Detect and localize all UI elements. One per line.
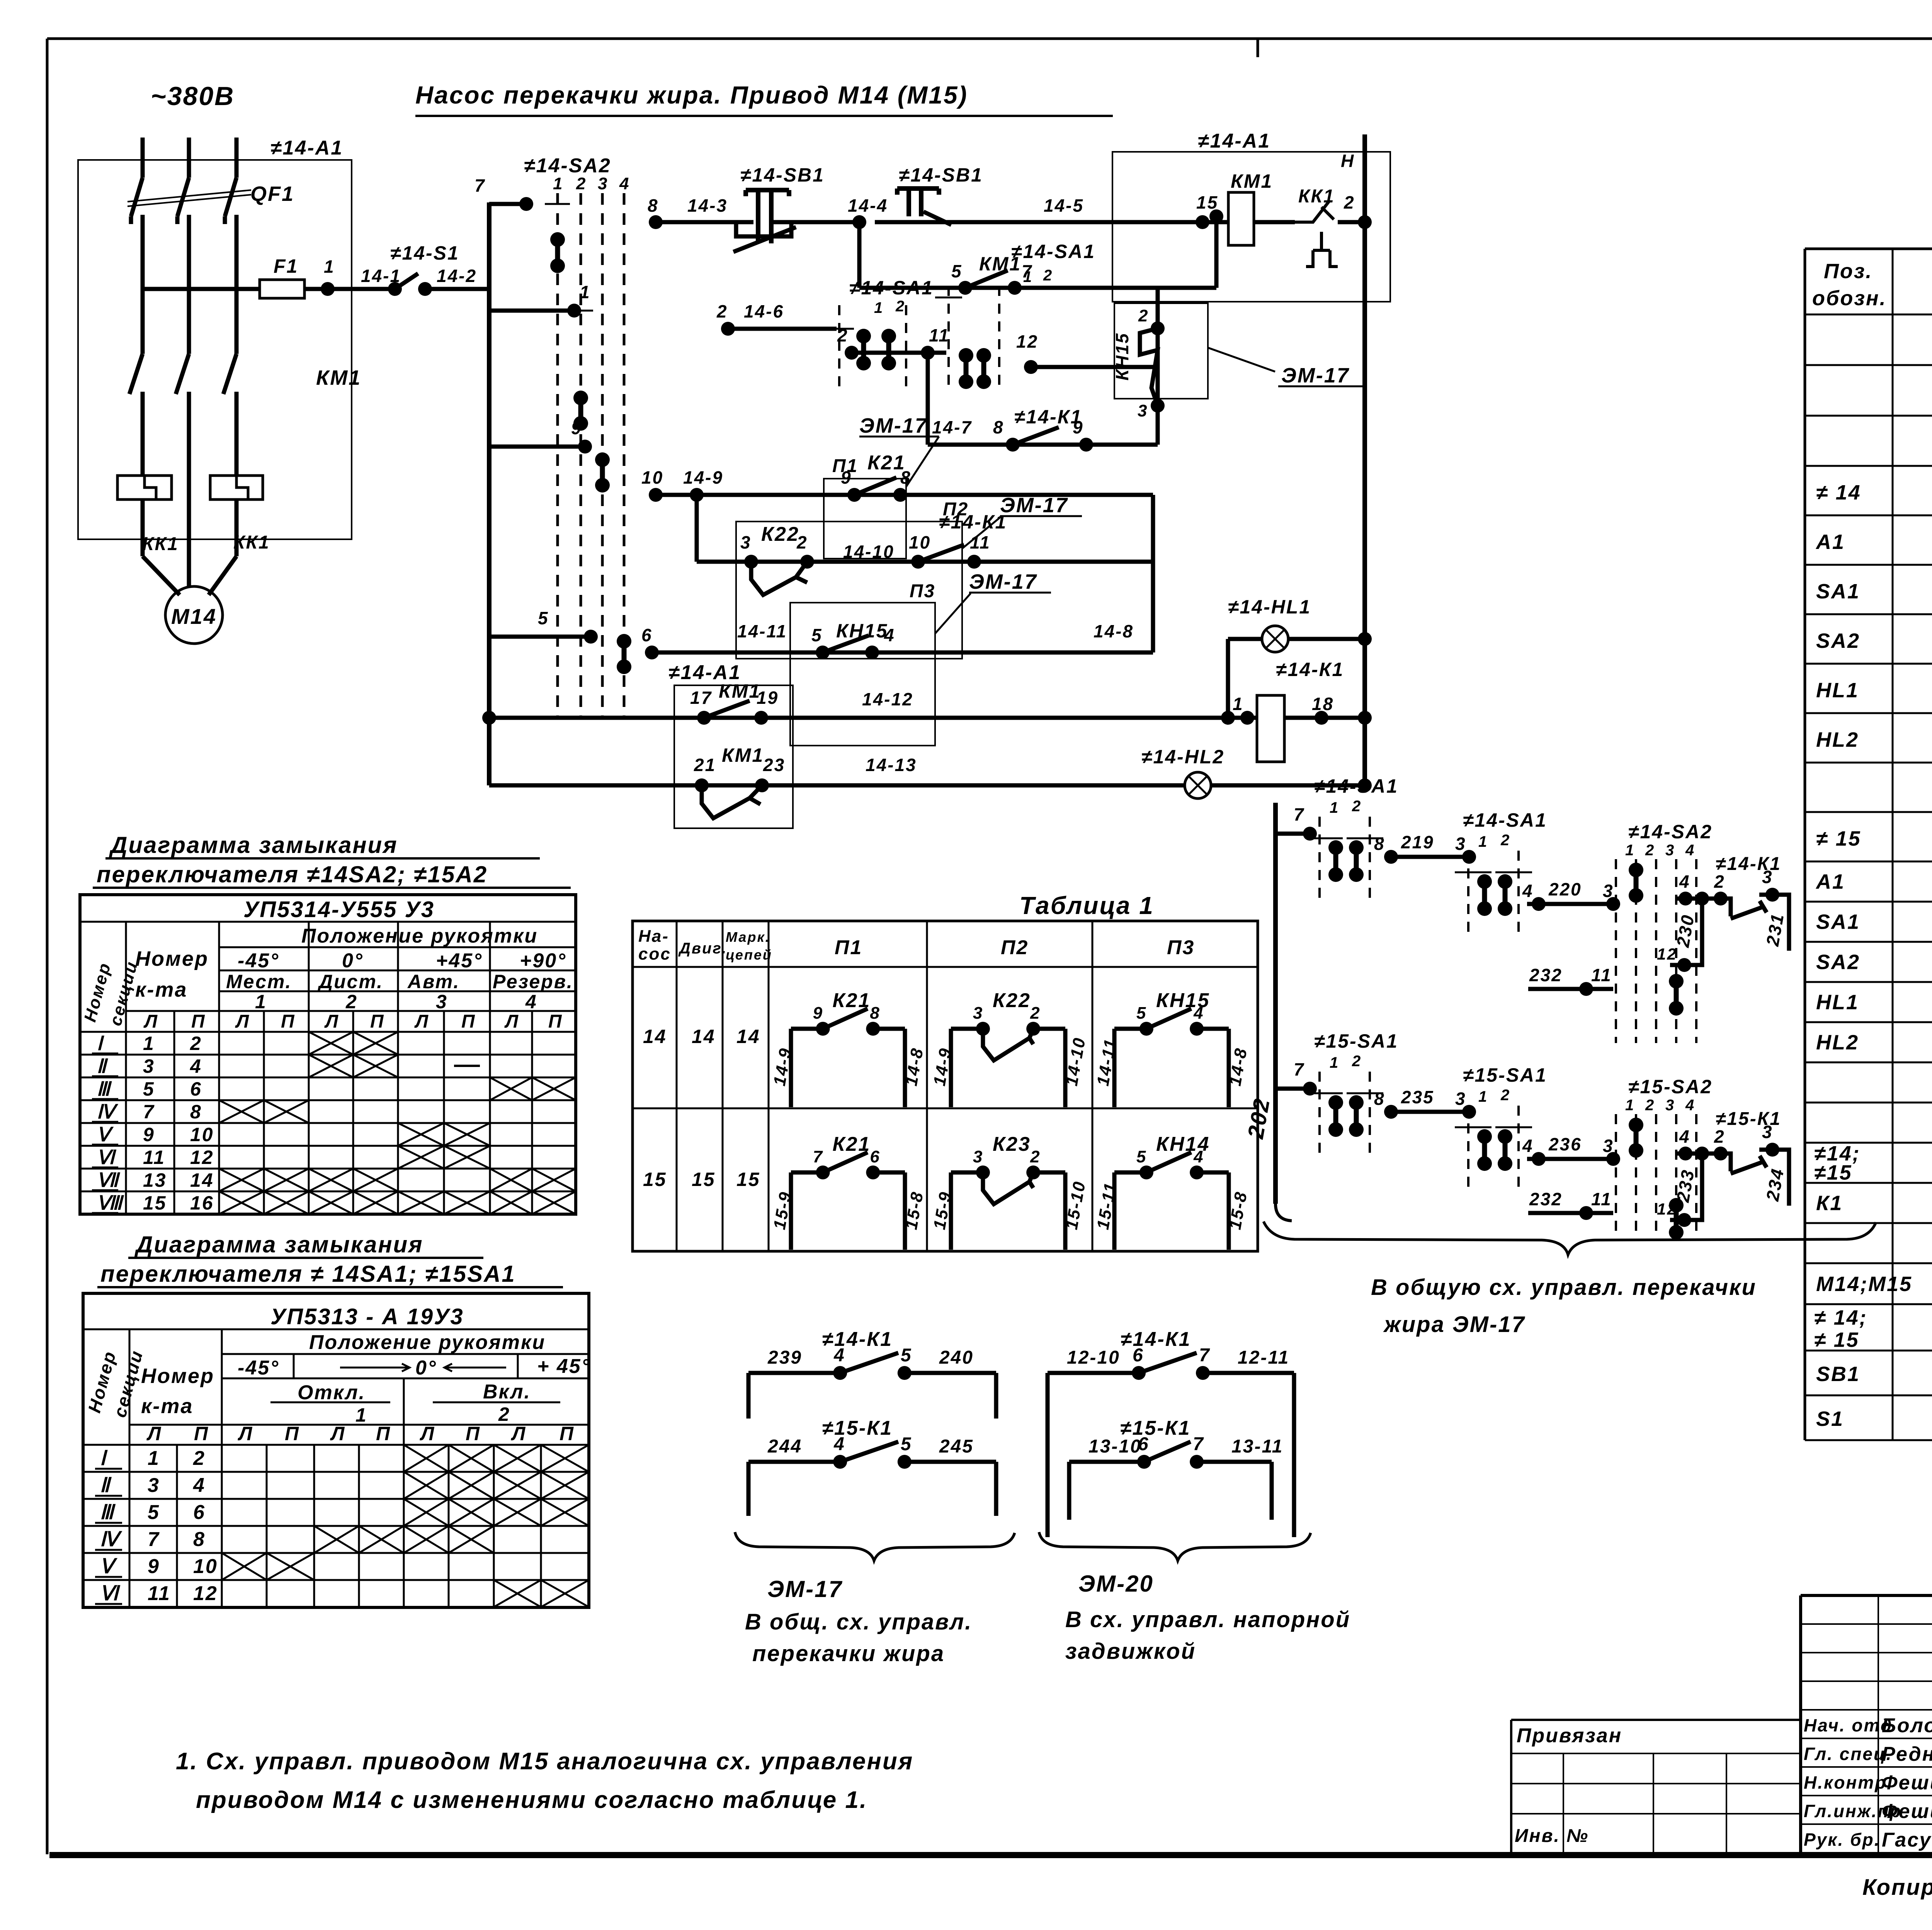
svg-text:3: 3 xyxy=(1455,834,1466,854)
svg-text:2: 2 xyxy=(1352,1053,1362,1070)
svg-text:12-10: 12-10 xyxy=(1067,1347,1120,1368)
svg-text:1: 1 xyxy=(1023,268,1033,285)
svg-text:8: 8 xyxy=(648,195,659,216)
svg-text:≠15-SA1: ≠15-SA1 xyxy=(1314,1030,1398,1052)
svg-text:Ⅰ: Ⅰ xyxy=(100,1447,108,1470)
svg-text:А1: А1 xyxy=(1815,530,1845,554)
svg-text:3: 3 xyxy=(1665,842,1675,859)
svg-text:Инв. №: Инв. № xyxy=(1515,1826,1589,1846)
svg-text:SА1: SА1 xyxy=(1816,911,1860,934)
svg-text:14-2: 14-2 xyxy=(437,266,477,286)
svg-text:перекачки жира: перекачки жира xyxy=(752,1641,945,1666)
svg-text:ЭМ-20: ЭМ-20 xyxy=(1078,1571,1154,1597)
svg-text:14-7: 14-7 xyxy=(932,417,972,437)
svg-text:8: 8 xyxy=(190,1101,202,1123)
svg-text:В общ. сх. управл.: В общ. сх. управл. xyxy=(745,1609,972,1634)
svg-text:Л: Л xyxy=(504,1011,519,1032)
svg-text:Фешин: Фешин xyxy=(1882,1772,1932,1794)
svg-text:1: 1 xyxy=(355,1404,367,1426)
svg-text:обозн.: обозн. xyxy=(1812,287,1887,310)
svg-text:10: 10 xyxy=(193,1555,218,1578)
svg-text:НL2: НL2 xyxy=(1816,728,1859,751)
svg-text:1. Cх. управл. приводом М15: 1. Cх. управл. приводом М15 аналогична с… xyxy=(176,1748,913,1775)
svg-text:+90°: +90° xyxy=(520,950,566,972)
svg-text:КМ1: КМ1 xyxy=(1231,170,1273,192)
svg-text:Л: Л xyxy=(420,1423,435,1444)
svg-text:3: 3 xyxy=(598,174,608,193)
svg-text:1: 1 xyxy=(1478,833,1488,850)
svg-text:Л: Л xyxy=(414,1011,429,1032)
svg-text:≠14-К1: ≠14-К1 xyxy=(1121,1328,1191,1351)
svg-text:Болотов: Болотов xyxy=(1882,1714,1932,1737)
svg-text:Дист.: Дист. xyxy=(317,971,383,992)
svg-text:Вкл.: Вкл. xyxy=(483,1381,531,1403)
svg-text:Л: Л xyxy=(511,1423,526,1444)
svg-text:13-10: 13-10 xyxy=(1088,1436,1142,1457)
svg-text:Авт.: Авт. xyxy=(407,971,460,992)
svg-text:14-6: 14-6 xyxy=(744,301,784,321)
svg-text:КК1: КК1 xyxy=(233,532,270,553)
svg-text:-45°: -45° xyxy=(238,950,279,972)
svg-text:6: 6 xyxy=(1133,1345,1144,1366)
svg-text:К21: К21 xyxy=(833,989,871,1012)
svg-text:КК1: КК1 xyxy=(142,534,179,554)
svg-text:Резерв.: Резерв. xyxy=(493,971,573,992)
svg-text:1: 1 xyxy=(1330,1054,1339,1071)
svg-text:9: 9 xyxy=(841,467,852,488)
svg-text:3: 3 xyxy=(436,991,448,1013)
svg-text:7: 7 xyxy=(1294,1059,1305,1079)
svg-text:Привязан: Привязан xyxy=(1517,1724,1622,1747)
svg-text:14: 14 xyxy=(643,1026,667,1047)
svg-text:8: 8 xyxy=(1374,1089,1385,1109)
svg-text:≠14-А1: ≠14-А1 xyxy=(1198,130,1270,152)
svg-text:Диаграмма замыкания: Диаграмма замыкания xyxy=(109,832,398,858)
svg-text:17: 17 xyxy=(690,688,712,708)
svg-text:245: 245 xyxy=(939,1436,974,1457)
svg-text:Ⅷ: Ⅷ xyxy=(97,1192,124,1214)
svg-text:1: 1 xyxy=(874,299,884,316)
svg-text:1: 1 xyxy=(324,257,335,277)
svg-text:15: 15 xyxy=(692,1169,716,1190)
svg-text:≠14-SA1: ≠14-SA1 xyxy=(1463,809,1547,831)
svg-text:21: 21 xyxy=(694,755,716,775)
svg-text:2: 2 xyxy=(190,1033,202,1054)
svg-text:КМ1: КМ1 xyxy=(316,366,361,389)
svg-text:≠15-SA1: ≠15-SA1 xyxy=(1463,1064,1547,1086)
svg-text:П: П xyxy=(194,1423,209,1444)
svg-text:3: 3 xyxy=(143,1055,155,1077)
svg-text:На-: На- xyxy=(638,927,669,946)
svg-text:К22: К22 xyxy=(761,523,799,545)
svg-text:≠14-SA2: ≠14-SA2 xyxy=(524,155,611,177)
svg-text:10: 10 xyxy=(641,467,663,488)
svg-text:≠14-SA1: ≠14-SA1 xyxy=(849,277,934,299)
svg-text:12: 12 xyxy=(1657,1200,1677,1218)
svg-text:2: 2 xyxy=(895,298,905,315)
svg-text:8: 8 xyxy=(1374,834,1385,854)
svg-text:НL1: НL1 xyxy=(1816,679,1859,702)
svg-text:0°: 0° xyxy=(415,1357,437,1379)
svg-text:2: 2 xyxy=(1030,1147,1041,1166)
svg-text:Номер: Номер xyxy=(135,947,209,970)
svg-text:2: 2 xyxy=(1352,798,1362,815)
svg-text:Откл.: Откл. xyxy=(298,1381,366,1404)
svg-text:≠ 15: ≠ 15 xyxy=(1814,1328,1859,1351)
svg-text:К21: К21 xyxy=(867,452,906,474)
svg-text:4: 4 xyxy=(1685,1097,1695,1114)
svg-text:Н: Н xyxy=(1341,151,1355,171)
svg-text:УП5313 - А 19У3: УП5313 - А 19У3 xyxy=(270,1304,464,1329)
svg-text:переключателя ≠ 14SА1; ≠15SА1: переключателя ≠ 14SА1; ≠15SА1 xyxy=(100,1261,516,1287)
svg-text:2: 2 xyxy=(576,174,587,193)
svg-text:6: 6 xyxy=(190,1078,202,1100)
svg-text:5: 5 xyxy=(811,625,823,645)
svg-text:Положение рукоятки: Положение рукоятки xyxy=(309,1331,546,1354)
svg-text:5: 5 xyxy=(951,261,963,281)
svg-text:7: 7 xyxy=(1199,1345,1211,1366)
svg-text:4: 4 xyxy=(833,1434,845,1454)
svg-text:П: П xyxy=(466,1423,481,1444)
svg-text:2: 2 xyxy=(1138,306,1149,325)
svg-text:Марк.: Марк. xyxy=(726,929,770,945)
svg-text:Н.контр.: Н.контр. xyxy=(1804,1772,1893,1792)
svg-text:к-та: к-та xyxy=(135,978,187,1001)
svg-text:≠15-К1: ≠15-К1 xyxy=(1716,1109,1781,1129)
svg-text:2: 2 xyxy=(1043,267,1053,284)
svg-text:15: 15 xyxy=(1196,192,1218,212)
svg-text:ЭМ-17: ЭМ-17 xyxy=(1281,364,1350,387)
svg-text:4: 4 xyxy=(1685,842,1695,859)
svg-text:2: 2 xyxy=(1344,192,1355,212)
svg-text:239: 239 xyxy=(767,1347,802,1368)
svg-text:7: 7 xyxy=(148,1528,160,1551)
svg-text:4: 4 xyxy=(525,991,537,1013)
svg-text:14-3: 14-3 xyxy=(687,195,728,216)
svg-text:SА2: SА2 xyxy=(1816,951,1860,974)
svg-text:219: 219 xyxy=(1401,832,1434,852)
svg-text:≠14-НL2: ≠14-НL2 xyxy=(1141,746,1225,768)
svg-text:П: П xyxy=(285,1423,300,1444)
svg-text:В сх. управл. напорной: В сх. управл. напорной xyxy=(1065,1607,1350,1632)
svg-text:Л: Л xyxy=(324,1011,339,1032)
svg-text:SА2: SА2 xyxy=(1816,629,1860,652)
svg-text:цепей: цепей xyxy=(726,947,772,963)
svg-text:КН15: КН15 xyxy=(1112,332,1132,381)
svg-text:1: 1 xyxy=(1625,1097,1635,1114)
svg-text:15: 15 xyxy=(143,1192,167,1214)
svg-text:11: 11 xyxy=(1591,965,1612,985)
svg-text:К23: К23 xyxy=(993,1133,1031,1155)
svg-text:SА1: SА1 xyxy=(1816,580,1860,603)
svg-text:Ⅳ: Ⅳ xyxy=(97,1101,119,1123)
svg-text:8: 8 xyxy=(993,417,1004,437)
svg-text:П2: П2 xyxy=(1001,936,1029,959)
svg-text:10: 10 xyxy=(909,532,931,552)
svg-text:≠14-SB1: ≠14-SB1 xyxy=(899,164,983,186)
svg-text:Таблица 1: Таблица 1 xyxy=(1019,892,1154,919)
svg-text:2: 2 xyxy=(1714,1126,1725,1147)
svg-text:3: 3 xyxy=(1665,1097,1675,1114)
svg-text:3: 3 xyxy=(1455,1089,1466,1109)
svg-text:Л: Л xyxy=(143,1011,158,1032)
svg-text:232: 232 xyxy=(1529,1189,1563,1209)
svg-text:8: 8 xyxy=(900,467,912,488)
svg-text:4: 4 xyxy=(190,1055,202,1077)
svg-text:Ⅰ: Ⅰ xyxy=(97,1033,104,1054)
svg-text:4: 4 xyxy=(1522,1136,1534,1156)
svg-text:9: 9 xyxy=(148,1555,160,1578)
svg-text:≠14-НL1: ≠14-НL1 xyxy=(1228,596,1311,618)
svg-text:≠14-S1: ≠14-S1 xyxy=(390,242,459,264)
svg-text:SВ1: SВ1 xyxy=(1816,1363,1860,1386)
svg-text:12: 12 xyxy=(1657,945,1677,963)
svg-text:К1: К1 xyxy=(1816,1192,1843,1215)
svg-text:3: 3 xyxy=(973,1004,983,1023)
svg-text:КК1: КК1 xyxy=(1298,186,1335,207)
svg-text:+45°: +45° xyxy=(436,950,483,972)
svg-text:ЭМ-17: ЭМ-17 xyxy=(1000,494,1068,517)
svg-text:~380В: ~380В xyxy=(151,82,235,111)
svg-text:5: 5 xyxy=(143,1078,155,1100)
svg-text:F1: F1 xyxy=(274,255,298,277)
svg-text:Л: Л xyxy=(238,1423,253,1444)
svg-text:П: П xyxy=(376,1423,391,1444)
svg-text:Рук. бр.: Рук. бр. xyxy=(1804,1830,1881,1850)
svg-text:19: 19 xyxy=(757,688,779,708)
svg-text:1: 1 xyxy=(255,991,267,1013)
svg-text:2: 2 xyxy=(345,991,358,1013)
svg-text:14-13: 14-13 xyxy=(866,755,917,775)
svg-text:Мест.: Мест. xyxy=(226,971,292,992)
svg-text:2: 2 xyxy=(716,301,728,321)
svg-text:3: 3 xyxy=(148,1474,160,1497)
svg-text:К21: К21 xyxy=(833,1133,871,1155)
svg-text:12: 12 xyxy=(190,1147,214,1168)
svg-text:ЭМ-17: ЭМ-17 xyxy=(767,1576,843,1602)
svg-text:3: 3 xyxy=(740,532,752,552)
svg-text:1: 1 xyxy=(1478,1088,1488,1105)
svg-text:Ⅳ: Ⅳ xyxy=(100,1528,122,1551)
svg-text:≠14-К1: ≠14-К1 xyxy=(1716,854,1781,874)
svg-text:≠ 15: ≠ 15 xyxy=(1816,827,1861,850)
svg-text:≠14-SB1: ≠14-SB1 xyxy=(740,164,825,186)
svg-text:1: 1 xyxy=(1625,842,1635,859)
svg-text:4: 4 xyxy=(833,1345,845,1366)
svg-text:2: 2 xyxy=(1500,832,1510,849)
svg-text:14: 14 xyxy=(190,1169,214,1191)
svg-text:Ⅵ: Ⅵ xyxy=(100,1582,121,1605)
svg-text:+ 45°: + 45° xyxy=(537,1355,590,1378)
svg-text:2: 2 xyxy=(1645,1097,1655,1114)
svg-text:12-11: 12-11 xyxy=(1238,1347,1289,1368)
svg-text:5: 5 xyxy=(901,1345,912,1366)
svg-text:11: 11 xyxy=(143,1147,165,1168)
svg-text:QF1: QF1 xyxy=(250,182,294,206)
svg-text:3: 3 xyxy=(973,1147,983,1166)
svg-text:приводом М14 с изменениями с: приводом М14 с изменениями согласно табл… xyxy=(196,1787,867,1813)
svg-text:4: 4 xyxy=(1193,1004,1204,1023)
svg-text:Фешин: Фешин xyxy=(1882,1800,1932,1823)
svg-text:13-11: 13-11 xyxy=(1231,1436,1283,1457)
svg-text:Ⅲ: Ⅲ xyxy=(100,1501,116,1524)
svg-text:К22: К22 xyxy=(993,989,1031,1012)
svg-text:П: П xyxy=(281,1011,296,1032)
svg-text:1: 1 xyxy=(1233,694,1244,714)
svg-text:≠14-SA1: ≠14-SA1 xyxy=(1314,775,1398,797)
svg-text:≠14-К1: ≠14-К1 xyxy=(822,1328,893,1351)
svg-text:23: 23 xyxy=(763,755,785,775)
svg-text:Номер: Номер xyxy=(141,1364,214,1388)
svg-text:УП5314-У555 У3: УП5314-У555 У3 xyxy=(243,897,435,922)
svg-text:3: 3 xyxy=(1138,401,1148,420)
svg-text:15: 15 xyxy=(643,1169,667,1190)
svg-text:≠ 14;: ≠ 14; xyxy=(1814,1306,1867,1329)
svg-text:9: 9 xyxy=(813,1004,823,1023)
svg-text:НL1: НL1 xyxy=(1816,991,1859,1014)
svg-text:0°: 0° xyxy=(342,950,364,972)
svg-text:Гл. спец.: Гл. спец. xyxy=(1804,1744,1892,1764)
svg-text:6: 6 xyxy=(1138,1434,1150,1454)
svg-text:М14;М15: М14;М15 xyxy=(1816,1273,1912,1296)
svg-text:КМ1: КМ1 xyxy=(719,680,761,702)
svg-text:М14: М14 xyxy=(171,604,217,629)
svg-text:≠14-К1: ≠14-К1 xyxy=(1276,659,1344,680)
svg-text:6: 6 xyxy=(870,1147,880,1166)
svg-text:5: 5 xyxy=(901,1434,912,1454)
svg-text:235: 235 xyxy=(1401,1087,1434,1107)
svg-text:14-10: 14-10 xyxy=(843,542,895,562)
svg-text:2: 2 xyxy=(498,1403,510,1425)
svg-text:240: 240 xyxy=(939,1347,974,1368)
svg-text:1: 1 xyxy=(143,1033,155,1054)
svg-text:7: 7 xyxy=(1294,804,1305,824)
svg-text:Л: Л xyxy=(146,1423,162,1444)
svg-text:П3: П3 xyxy=(1167,936,1195,959)
svg-text:11: 11 xyxy=(1591,1189,1612,1209)
svg-text:2: 2 xyxy=(1030,1004,1041,1023)
svg-text:задвижкой: задвижкой xyxy=(1065,1639,1196,1664)
svg-text:≠14-SA2: ≠14-SA2 xyxy=(1628,821,1713,843)
svg-text:14: 14 xyxy=(692,1026,716,1047)
svg-text:2: 2 xyxy=(837,325,849,345)
svg-text:≠15: ≠15 xyxy=(1814,1161,1852,1184)
svg-text:5: 5 xyxy=(1136,1004,1147,1023)
svg-text:НL2: НL2 xyxy=(1816,1031,1859,1054)
svg-text:8: 8 xyxy=(870,1004,880,1023)
svg-text:4: 4 xyxy=(193,1474,206,1497)
svg-text:≠14-SA1: ≠14-SA1 xyxy=(1011,241,1095,262)
svg-text:14-8: 14-8 xyxy=(1094,621,1134,641)
svg-text:П3: П3 xyxy=(910,581,935,601)
svg-text:18: 18 xyxy=(1312,694,1334,714)
svg-text:12: 12 xyxy=(193,1582,218,1605)
svg-text:6: 6 xyxy=(641,625,653,645)
svg-text:В общую сх. управл. перекачки: В общую сх. управл. перекачки xyxy=(1371,1275,1757,1300)
svg-text:7: 7 xyxy=(143,1101,155,1123)
svg-text:4: 4 xyxy=(619,174,630,193)
svg-text:4: 4 xyxy=(884,625,895,645)
svg-text:7: 7 xyxy=(813,1147,823,1166)
svg-text:≠14-К1: ≠14-К1 xyxy=(1014,406,1082,428)
svg-text:Л: Л xyxy=(330,1423,345,1444)
svg-text:5: 5 xyxy=(1136,1147,1147,1166)
svg-text:Гасумянц: Гасумянц xyxy=(1882,1829,1932,1851)
svg-text:8: 8 xyxy=(193,1528,206,1551)
svg-text:≠15-SA2: ≠15-SA2 xyxy=(1628,1076,1713,1098)
svg-text:4: 4 xyxy=(1679,872,1690,892)
svg-text:16: 16 xyxy=(190,1192,214,1214)
svg-text:11: 11 xyxy=(929,325,950,345)
svg-text:7: 7 xyxy=(1193,1434,1204,1454)
svg-text:14-4: 14-4 xyxy=(848,195,888,216)
svg-text:П: П xyxy=(461,1011,476,1032)
svg-text:Положение рукоятки: Положение рукоятки xyxy=(301,925,538,947)
svg-text:11: 11 xyxy=(970,532,991,552)
svg-text:Копировал· Му: Копировал· Му xyxy=(1862,1875,1932,1900)
svg-text:14-5: 14-5 xyxy=(1044,195,1084,216)
svg-text:6: 6 xyxy=(193,1501,206,1524)
svg-text:П: П xyxy=(370,1011,385,1032)
svg-text:2: 2 xyxy=(193,1447,206,1470)
svg-text:14-9: 14-9 xyxy=(683,467,723,488)
svg-text:12: 12 xyxy=(1016,331,1038,352)
svg-text:5: 5 xyxy=(538,608,549,628)
svg-text:КМ1: КМ1 xyxy=(722,744,764,766)
svg-text:Диаграмма замыкания: Диаграмма замыкания xyxy=(134,1232,423,1257)
svg-text:П: П xyxy=(548,1011,563,1032)
svg-text:Ⅱ: Ⅱ xyxy=(97,1055,108,1077)
svg-text:2: 2 xyxy=(1500,1087,1510,1104)
svg-text:П: П xyxy=(560,1423,575,1444)
svg-text:Двиг.: Двиг. xyxy=(678,940,727,957)
svg-text:ЭМ-17: ЭМ-17 xyxy=(969,570,1037,593)
svg-text:-45°: -45° xyxy=(238,1357,279,1379)
svg-text:≠14-А1: ≠14-А1 xyxy=(270,137,343,159)
svg-text:≠ 14: ≠ 14 xyxy=(1816,481,1861,504)
svg-text:S1: S1 xyxy=(1816,1407,1844,1431)
svg-text:236: 236 xyxy=(1548,1134,1582,1154)
svg-text:232: 232 xyxy=(1529,965,1563,985)
svg-text:1: 1 xyxy=(1330,799,1339,816)
svg-text:14-12: 14-12 xyxy=(862,689,913,709)
svg-text:к-та: к-та xyxy=(141,1395,193,1418)
svg-text:4: 4 xyxy=(1193,1147,1204,1166)
svg-text:Ⅶ: Ⅶ xyxy=(97,1169,121,1191)
svg-text:переключателя ≠14SА2; ≠15А2: переключателя ≠14SА2; ≠15А2 xyxy=(97,861,488,887)
svg-text:1: 1 xyxy=(148,1447,160,1470)
svg-text:7: 7 xyxy=(474,175,486,195)
svg-text:≠14-К1: ≠14-К1 xyxy=(939,511,1007,533)
svg-text:220: 220 xyxy=(1548,879,1582,899)
svg-text:Нач. отд: Нач. отд xyxy=(1804,1715,1893,1735)
svg-text:1: 1 xyxy=(553,174,563,193)
svg-text:сос: сос xyxy=(638,945,671,963)
svg-text:Ⅲ: Ⅲ xyxy=(97,1078,112,1100)
svg-text:2: 2 xyxy=(1645,842,1655,859)
svg-text:≠15-К1: ≠15-К1 xyxy=(822,1417,893,1439)
svg-text:П: П xyxy=(191,1011,206,1032)
svg-text:4: 4 xyxy=(1679,1126,1690,1147)
svg-text:П1: П1 xyxy=(835,936,862,959)
svg-text:5: 5 xyxy=(148,1501,160,1524)
svg-text:жира ЭМ-17: жира ЭМ-17 xyxy=(1383,1312,1526,1337)
svg-text:Ⅱ: Ⅱ xyxy=(100,1474,112,1497)
svg-text:Поз.: Поз. xyxy=(1824,260,1872,283)
svg-text:9: 9 xyxy=(143,1124,155,1145)
svg-text:Л: Л xyxy=(235,1011,250,1032)
svg-text:13: 13 xyxy=(143,1169,167,1191)
